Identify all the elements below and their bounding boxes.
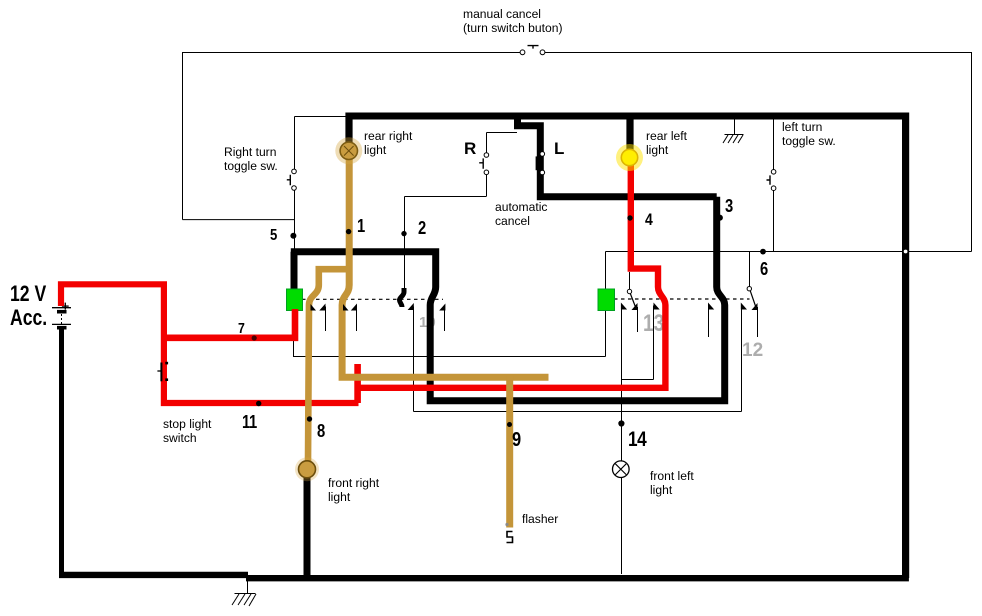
wire manual-cancel loop right edge xyxy=(971,53,973,252)
label rear right light xyxy=(364,130,412,158)
wire rear left light feed drop xyxy=(626,113,633,153)
node 14 label xyxy=(628,428,646,452)
wire front right light ground lead xyxy=(304,476,311,578)
label manual cancel xyxy=(463,8,562,36)
wire R button top link to L branch xyxy=(487,132,518,134)
lamp rear left light xyxy=(616,144,643,171)
node 7 xyxy=(252,335,257,340)
node 1 xyxy=(346,229,351,234)
relay1 contact3 throw arrow xyxy=(408,303,414,310)
node 5 xyxy=(290,233,296,239)
wire left-turn toggle upper lead xyxy=(773,119,775,170)
wire relay2 contact2 left throw xyxy=(653,306,655,380)
lamp front right light xyxy=(295,457,319,481)
wire R button lower lead xyxy=(486,174,488,196)
wire bottom ground bus left segment xyxy=(59,572,248,578)
wire left-turn toggle lower lead to node 6 xyxy=(773,190,775,251)
node 11 xyxy=(256,401,261,406)
wire gold branch to relay1 contact1 blade, down to front right light xyxy=(308,269,349,462)
node 3 xyxy=(717,215,723,221)
label front right light xyxy=(328,477,379,505)
label left turn toggle sw xyxy=(782,121,836,149)
wire coil bus horizontal xyxy=(293,356,606,358)
lamp front left light xyxy=(613,461,630,478)
node 7 label xyxy=(238,320,244,337)
relay1 coil xyxy=(287,289,303,311)
label right turn toggle sw xyxy=(224,146,278,174)
node 13 label xyxy=(643,310,664,338)
wire manual-cancel loop left edge xyxy=(182,53,184,220)
ground lead top right xyxy=(734,120,736,135)
wire right coil upper lead xyxy=(605,252,607,290)
node 12 label xyxy=(742,340,763,362)
wire left coil lower lead xyxy=(293,341,295,357)
flasher symbol xyxy=(507,532,513,543)
wire left coil top lead xyxy=(291,252,298,290)
wire relay2 contact4 left throw (long) xyxy=(741,306,743,412)
relay2 contact3 throw arrow xyxy=(708,303,714,310)
label R xyxy=(464,139,476,159)
relay1 contact2 throw arrows xyxy=(351,304,357,311)
wire relay1 contact2 right throw stub xyxy=(356,307,358,332)
node 9 label xyxy=(512,429,521,452)
wire red battery positive to stop-light-switch branch xyxy=(61,284,359,403)
wire right-turn toggle top connection xyxy=(295,116,347,118)
battery 12V Acc plates xyxy=(52,303,71,328)
label 12V Acc battery xyxy=(10,281,46,307)
wire node 6 drop to relay2 contact4 pivot xyxy=(749,252,751,288)
flasher terminal dot xyxy=(505,523,508,526)
wire relay2 contact4 right throw stub xyxy=(757,307,759,337)
wire red lower horizontal to relay2 contact2 blade, up to rear left light (node 4) xyxy=(358,163,666,388)
wire lower net horizontal xyxy=(414,411,742,413)
switch L automatic cancel button xyxy=(537,152,545,175)
wire relay1 contact4 right throw stub xyxy=(444,307,446,332)
relay1 contact3 blade (thick short) xyxy=(400,288,405,307)
wire manual-cancel loop top edge (right of button) xyxy=(541,52,972,54)
wire R button upper lead xyxy=(486,133,488,154)
relay1 contact4 throw arrow xyxy=(439,304,445,311)
wire relay2 contact1 right throw stub xyxy=(637,307,639,332)
lamp rear right light xyxy=(335,137,362,164)
wire manual-cancel loop bottom-left edge xyxy=(183,219,295,221)
relay2 contact2 throw arrow xyxy=(654,303,660,310)
label stop light switch xyxy=(163,418,211,446)
node 5 label xyxy=(270,227,277,245)
label L xyxy=(554,139,564,159)
wire bottom ground bus right segment xyxy=(246,575,909,581)
wire right-turn toggle lower lead to node 5 xyxy=(294,190,296,249)
wire battery negative lead xyxy=(59,329,64,576)
node 8 label xyxy=(317,421,325,442)
switch left turn toggle xyxy=(767,170,776,191)
wire front left light to ground bus xyxy=(621,478,623,575)
relay2 contact1 pivot and blade xyxy=(627,289,637,310)
ground lead bottom center xyxy=(247,581,249,594)
ground symbol bottom center xyxy=(232,594,256,607)
wire node-6 horizontal to loop right edge xyxy=(606,251,972,253)
node 10 label xyxy=(419,314,436,331)
wire relay2 contact3 left throw stub xyxy=(708,306,710,338)
wire right-turn toggle upper lead xyxy=(294,117,296,170)
wire gold flasher drop xyxy=(506,376,513,528)
label flasher xyxy=(522,513,558,527)
label rear left light xyxy=(646,130,687,158)
node 1 label xyxy=(357,216,365,237)
node 4 label xyxy=(645,210,652,230)
wire front left light line (node 14) xyxy=(621,306,623,462)
node 2 xyxy=(401,231,406,236)
node 11 label xyxy=(242,412,257,433)
wire relay1 contact1 right throw stub xyxy=(325,307,327,332)
wire red coil feed node 7 horizontal xyxy=(164,309,295,338)
node 2 label xyxy=(418,218,426,239)
node 8 xyxy=(307,416,312,421)
wire right coil lower lead xyxy=(605,311,607,357)
relay2 contact1 left throw arrow xyxy=(621,303,627,310)
switch manual cancel push button xyxy=(520,46,545,55)
relay2 contact4 left throw arrow xyxy=(741,303,747,310)
node 6 xyxy=(760,249,766,255)
wire red riser at node 11 branch xyxy=(354,364,361,403)
ground symbol top right xyxy=(723,135,744,144)
switch R automatic cancel button xyxy=(479,153,489,175)
label automatic cancel xyxy=(495,201,547,229)
relay1 actuation dashed line xyxy=(302,298,443,300)
switch right turn toggle xyxy=(287,169,297,190)
wire relay2 contact1 pivot lead xyxy=(629,272,631,289)
wire rear right light feed drop xyxy=(345,113,352,144)
relay2 coil xyxy=(598,289,615,311)
wire node 2 vertical xyxy=(404,197,406,289)
wire relay1 contact3 right throw (long, to lower net) xyxy=(413,307,415,412)
relay2 contact4 pivot and blade xyxy=(747,287,757,311)
switch stop light xyxy=(157,362,168,382)
wire right edge vertical xyxy=(902,113,909,579)
node 3 label xyxy=(725,196,733,217)
wire thick top bus xyxy=(346,113,910,120)
wire gold rear right light to relay1 contact2 blade, to flasher bus xyxy=(342,157,548,377)
wire manual-cancel loop top edge (left of button) xyxy=(182,52,524,54)
node 14 xyxy=(618,420,624,426)
wire relay2 contact2 throw link xyxy=(622,379,654,381)
relay1 contact1 throw arrows xyxy=(319,304,325,311)
wire node3 vertical + relay2 contact3 blade + bottom link + relay1 contact4 blade + node5 bus xyxy=(291,197,725,401)
node 9 xyxy=(507,422,512,427)
node 6 label xyxy=(760,259,768,280)
crossing circle node6 line over right edge xyxy=(903,249,908,254)
label front left light xyxy=(650,470,694,498)
relay2 actuation dashed line xyxy=(614,298,750,300)
wire automatic cancel horizontal to node 2 xyxy=(405,196,487,198)
wire L branch from top bus xyxy=(518,116,717,197)
node 4 xyxy=(627,215,632,220)
